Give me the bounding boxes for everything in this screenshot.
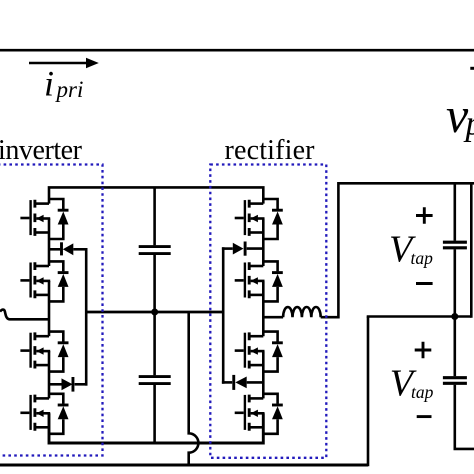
capacitor C1 (upper DC-link) [139, 187, 171, 312]
svg-text:tap: tap [411, 248, 434, 268]
wire: Q2 source to Q3 drain (AC input node) [48, 281, 51, 336]
body diode DB3 of Q3 [49, 332, 69, 372]
body diode DB6 of Q6 [263, 261, 283, 301]
svg-text:tap: tap [411, 382, 434, 402]
svg-text:inverter: inverter [0, 135, 83, 166]
dashed boundary box: inverter [0, 165, 103, 456]
wire: transformer primary conductor [0, 49, 474, 52]
capacitor C2 (lower DC-link) [139, 312, 171, 443]
wire: Q6 source to Q7 drain (AC output node) [262, 281, 265, 336]
body diode DB4 of Q4 [49, 394, 69, 434]
wire: Q3 source to Q4 drain (clamp node B) [48, 351, 51, 398]
junction: tap midpoint node [451, 313, 458, 320]
wire: Q5 source to Q6 drain (clamp node C) [262, 219, 265, 267]
transistor Q2 [20, 262, 50, 298]
wire: Q7 source to Q8 drain (clamp node D) [262, 351, 265, 398]
wire: inductor to output positive rail [321, 183, 474, 317]
label: + (cropped, top right) [470, 67, 474, 70]
wire: bottom tap rail [0, 464, 368, 467]
body diode DB2 of Q2 [49, 261, 69, 301]
clamp diode D1 (upper, inverter) [49, 242, 88, 255]
label: i_pri [44, 64, 83, 104]
clamp diode D3 (upper, rectifier) [222, 242, 263, 256]
label: - polarity of upper V_tap [416, 282, 433, 285]
wire: positive DC bus with leg risers [49, 187, 263, 203]
transistor Q4 [20, 395, 50, 431]
transistor Q8 [235, 395, 265, 431]
wire: output sense line [470, 183, 473, 317]
body diode DB7 of Q7 [263, 332, 283, 372]
body diode DB1 of Q1 [49, 199, 69, 239]
label: V_tap (lower) [390, 363, 434, 405]
body diode DB8 of Q8 [263, 394, 283, 434]
wire: tap midpoint wire [367, 315, 472, 318]
capacitor C3 (upper V_tap) [443, 183, 467, 316]
clamp diode D4 (lower, rectifier) [222, 375, 263, 390]
wire: negative DC bus with leg returns [49, 413, 263, 443]
transistor Q1 [20, 200, 50, 236]
label: + polarity of lower V_tap [415, 342, 432, 359]
wire: neutral rail between legs [86, 311, 223, 314]
svg-text:pri: pri [55, 77, 84, 102]
transistor Q3 [20, 332, 50, 368]
inductor L1 [283, 307, 321, 317]
arrow: primary current direction [29, 58, 99, 68]
body diode DB5 of Q5 [263, 199, 283, 239]
svg-text:rectifier: rectifier [225, 135, 316, 166]
label: + polarity of upper V_tap [416, 207, 433, 224]
wire: rectifier neutral-point vertical [222, 247, 225, 383]
label: v_p [446, 87, 474, 143]
transistor Q7 [235, 332, 265, 368]
label: - polarity of lower V_tap [417, 415, 432, 418]
dashed boundary box: rectifier [210, 165, 326, 458]
transistor Q5 [235, 200, 265, 236]
wire: AC input from resonant tank (coil tail) [0, 310, 49, 320]
wire: Q1 source to Q2 drain (clamp node A) [48, 219, 51, 267]
capacitor C4 (lower V_tap) [443, 317, 474, 449]
junction: DC-link midpoint node [151, 309, 158, 316]
transistor Q6 [235, 262, 265, 298]
wire: inverter neutral-point vertical [85, 248, 88, 386]
label: V_tap (upper) [389, 228, 433, 270]
svg-text:i: i [44, 64, 54, 104]
clamp diode D2 (lower, inverter) [49, 377, 88, 392]
wire: tap rail riser [367, 317, 370, 467]
wire: neutral tap branch with crossover hop [189, 312, 199, 465]
wire: rectifier AC node to filter inductor [263, 316, 283, 319]
